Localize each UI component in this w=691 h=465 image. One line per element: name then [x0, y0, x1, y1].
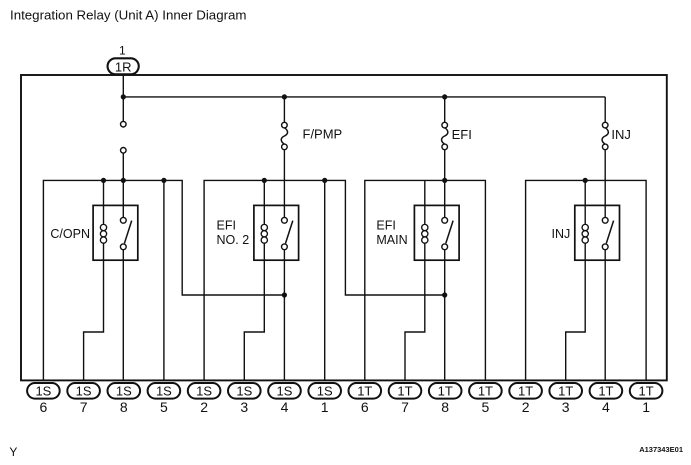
svg-text:1T: 1T [518, 384, 533, 399]
svg-text:1: 1 [119, 44, 126, 58]
svg-text:1T: 1T [438, 384, 453, 399]
svg-text:1T: 1T [478, 384, 493, 399]
svg-text:1T: 1T [397, 384, 412, 399]
svg-text:Y: Y [9, 445, 17, 459]
svg-text:6: 6 [40, 399, 48, 415]
svg-text:NO. 2: NO. 2 [217, 233, 250, 247]
svg-text:8: 8 [120, 399, 128, 415]
svg-text:1T: 1T [598, 384, 613, 399]
svg-text:5: 5 [160, 399, 168, 415]
svg-text:1R: 1R [115, 59, 132, 74]
svg-text:1S: 1S [236, 384, 252, 399]
svg-text:A137343E01: A137343E01 [639, 445, 683, 454]
svg-text:4: 4 [281, 399, 289, 415]
svg-text:1: 1 [642, 399, 650, 415]
svg-text:7: 7 [80, 399, 88, 415]
svg-text:F/PMP: F/PMP [303, 127, 343, 142]
svg-text:5: 5 [482, 399, 490, 415]
svg-text:3: 3 [240, 399, 248, 415]
svg-text:7: 7 [401, 399, 409, 415]
svg-text:1S: 1S [317, 384, 333, 399]
svg-text:8: 8 [441, 399, 449, 415]
svg-text:2: 2 [200, 399, 208, 415]
svg-text:2: 2 [522, 399, 530, 415]
svg-text:EFI: EFI [452, 127, 472, 142]
svg-text:INJ: INJ [552, 227, 571, 241]
svg-text:6: 6 [361, 399, 369, 415]
svg-text:1T: 1T [639, 384, 654, 399]
svg-text:1S: 1S [196, 384, 212, 399]
svg-text:C/OPN: C/OPN [50, 227, 90, 241]
svg-text:MAIN: MAIN [376, 233, 407, 247]
svg-text:1: 1 [321, 399, 329, 415]
svg-text:4: 4 [602, 399, 610, 415]
svg-text:1T: 1T [558, 384, 573, 399]
svg-text:EFI: EFI [376, 218, 395, 232]
svg-text:EFI: EFI [217, 218, 236, 232]
svg-text:1S: 1S [116, 384, 132, 399]
svg-text:1S: 1S [35, 384, 51, 399]
svg-text:3: 3 [562, 399, 570, 415]
svg-text:1S: 1S [156, 384, 172, 399]
svg-text:INJ: INJ [611, 127, 631, 142]
svg-text:1S: 1S [277, 384, 293, 399]
svg-text:Integration Relay (Unit A) Inn: Integration Relay (Unit A) Inner Diagram [10, 8, 247, 23]
svg-text:1S: 1S [76, 384, 92, 399]
svg-text:1T: 1T [357, 384, 372, 399]
